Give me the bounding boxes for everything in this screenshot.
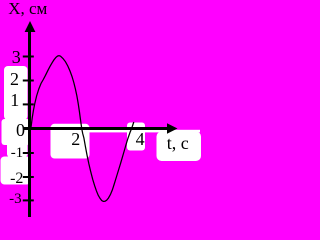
svg-text:2: 2 (71, 129, 80, 149)
white label box behind "-2" (1, 157, 31, 185)
white label box behind "-1" (7, 141, 28, 157)
white label box behind "4" (127, 123, 145, 151)
svg-text:-1: -1 (11, 145, 24, 161)
white label box behind "2" and "1" (4, 66, 28, 120)
white label box behind "0" (2, 119, 31, 145)
t axis arrowhead (167, 123, 178, 134)
svg-text:3: 3 (12, 47, 21, 67)
white strip under t-axis (90, 130, 201, 133)
svg-text:4: 4 (136, 129, 145, 149)
sine curve x(t) (31, 56, 134, 202)
svg-text:0: 0 (16, 120, 25, 140)
svg-text:t, с: t, с (167, 133, 189, 153)
tick -1 (23, 152, 34, 154)
white label box behind "t, c" (157, 132, 202, 162)
X axis arrowhead (25, 21, 36, 32)
svg-text:-2: -2 (10, 170, 23, 187)
svg-text:X, см: X, см (8, 0, 47, 18)
tick +1 (23, 103, 34, 105)
tick +3 (23, 56, 34, 58)
X axis (vertical) (28, 26, 31, 217)
svg-text:2: 2 (10, 69, 19, 89)
svg-text:-3: -3 (9, 191, 22, 207)
tick -3 (23, 199, 34, 201)
svg-text:1: 1 (10, 90, 19, 110)
white label box behind "2" on t-axis (51, 124, 90, 159)
magenta background (0, 0, 203, 217)
t axis (horizontal) (23, 127, 170, 130)
tick -2 (23, 176, 34, 178)
tick +2 (23, 80, 34, 82)
